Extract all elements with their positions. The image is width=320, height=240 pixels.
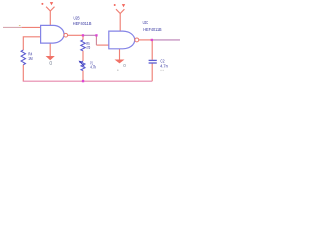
svg-text:U2B: U2B [74, 16, 80, 21]
svg-text:0: 0 [123, 63, 126, 68]
svg-text:0: 0 [49, 61, 52, 67]
svg-text:470: 470 [86, 45, 90, 50]
svg-text:1M: 1M [28, 56, 33, 61]
svg-text:U2C: U2C [143, 20, 149, 25]
svg-text:4.7k: 4.7k [90, 65, 96, 70]
svg-text:HEF4011B: HEF4011B [143, 27, 162, 32]
svg-text:4.7n: 4.7n [160, 63, 168, 68]
svg-text:HEF4011B: HEF4011B [73, 21, 92, 26]
